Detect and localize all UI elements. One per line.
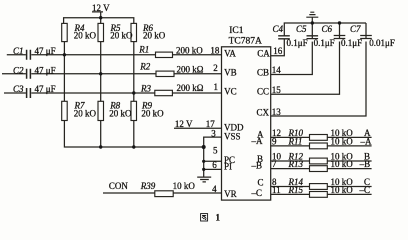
svg-text:14: 14 <box>272 65 282 75</box>
svg-text:5: 5 <box>213 145 218 155</box>
svg-text:VSS: VSS <box>224 132 241 142</box>
svg-text:–B: –B <box>251 160 263 170</box>
svg-text:0.01μF: 0.01μF <box>369 38 395 48</box>
svg-text:C3: C3 <box>13 84 24 94</box>
svg-text:R11: R11 <box>288 136 303 146</box>
svg-text:10 kO: 10 kO <box>331 159 354 169</box>
svg-text:R15: R15 <box>288 185 304 195</box>
svg-text:7: 7 <box>272 159 277 169</box>
svg-text:9: 9 <box>272 136 277 146</box>
svg-text:PI: PI <box>224 162 232 172</box>
svg-text:20 kO: 20 kO <box>143 31 166 41</box>
svg-text:CON: CON <box>109 181 129 191</box>
svg-text:CX: CX <box>257 108 270 118</box>
svg-text:20 kO: 20 kO <box>74 31 97 41</box>
svg-text:0.1μF: 0.1μF <box>287 38 308 48</box>
svg-text:CB: CB <box>257 68 269 78</box>
svg-text:47 μF: 47 μF <box>35 84 56 94</box>
svg-text:–A: –A <box>251 136 264 146</box>
svg-text:–B: –B <box>359 159 371 169</box>
svg-text:12 V: 12 V <box>175 119 193 129</box>
svg-text:VC: VC <box>224 87 237 97</box>
svg-text:18: 18 <box>210 46 220 56</box>
svg-text:12 V: 12 V <box>92 3 110 13</box>
svg-text:16: 16 <box>273 46 283 56</box>
svg-text:20 kO: 20 kO <box>74 109 97 119</box>
svg-text:CA: CA <box>257 49 270 59</box>
svg-text:0.1μF: 0.1μF <box>341 38 362 48</box>
svg-text:IC1: IC1 <box>229 26 244 36</box>
svg-text:1: 1 <box>214 82 219 92</box>
svg-text:R2: R2 <box>139 62 150 72</box>
svg-text:11: 11 <box>272 185 281 195</box>
svg-text:1: 1 <box>216 213 221 223</box>
svg-text:10 kO: 10 kO <box>173 181 196 191</box>
svg-text:VR: VR <box>224 189 237 199</box>
svg-text:TC787A: TC787A <box>229 36 262 46</box>
svg-text:200 kO: 200 kO <box>176 46 203 56</box>
svg-text:–A: –A <box>360 136 373 146</box>
svg-text:–C: –C <box>251 188 263 198</box>
svg-text:2: 2 <box>213 63 218 73</box>
svg-text:6: 6 <box>212 160 217 170</box>
svg-text:47 μF: 47 μF <box>35 46 56 56</box>
svg-text:200 kΩ: 200 kΩ <box>177 83 204 93</box>
svg-text:3: 3 <box>211 128 216 138</box>
svg-text:VA: VA <box>224 49 236 59</box>
svg-text:R13: R13 <box>288 159 304 169</box>
svg-text:0.1μF: 0.1μF <box>314 38 335 48</box>
svg-text:C2: C2 <box>13 65 24 75</box>
svg-text:C5: C5 <box>296 24 307 34</box>
svg-text:C4: C4 <box>273 24 284 34</box>
svg-text:10 kO: 10 kO <box>331 185 354 195</box>
svg-text:15: 15 <box>272 85 282 95</box>
svg-text:C: C <box>258 178 264 188</box>
svg-text:R3: R3 <box>140 83 151 93</box>
svg-text:CC: CC <box>257 87 269 97</box>
svg-text:47 μF: 47 μF <box>35 65 56 75</box>
svg-text:17: 17 <box>206 119 216 129</box>
svg-text:C6: C6 <box>322 24 333 34</box>
svg-text:200 kΩ: 200 kΩ <box>177 65 204 75</box>
svg-text:C1: C1 <box>13 46 24 56</box>
svg-text:R39: R39 <box>140 181 156 191</box>
svg-text:VB: VB <box>224 68 237 78</box>
svg-text:4: 4 <box>212 184 217 194</box>
svg-text:13: 13 <box>272 107 282 117</box>
svg-text:10 kO: 10 kO <box>331 136 354 146</box>
svg-text:20 kO: 20 kO <box>141 109 164 119</box>
svg-text:–C: –C <box>359 185 371 195</box>
svg-text:20 kO: 20 kO <box>110 31 133 41</box>
svg-text:C7: C7 <box>350 24 361 34</box>
svg-text:R1: R1 <box>138 45 149 55</box>
svg-text:20 kO: 20 kO <box>109 109 132 119</box>
